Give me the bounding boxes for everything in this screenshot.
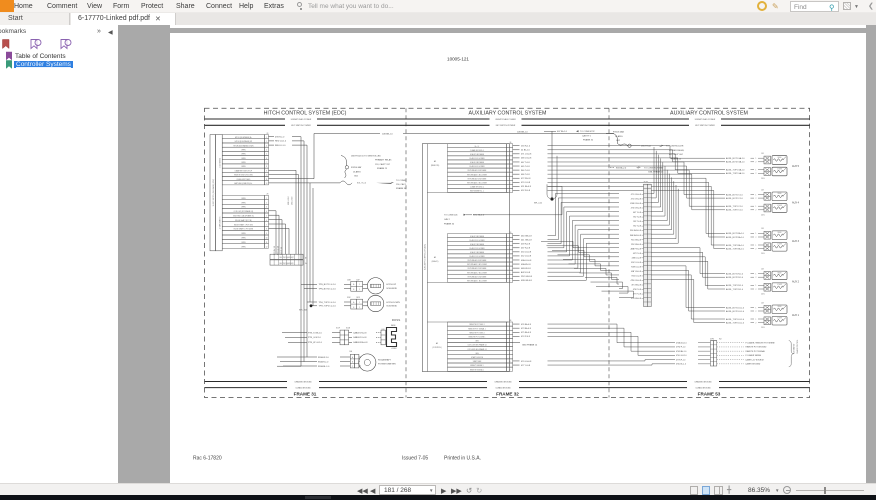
hitch down solenoid wires TPH_TOP1 / TPH_TOP2 (307, 297, 360, 308)
svg-text:F1 LASER SENSE: F1 LASER SENSE (746, 354, 762, 357)
svg-text:952 Y-0.8: 952 Y-0.8 (633, 217, 641, 219)
bus wire CLEAN GROUND (205, 386, 810, 389)
svg-text:992A R-1.0: 992A R-1.0 (318, 360, 329, 363)
svg-text:98B LU-1.0: 98B LU-1.0 (275, 145, 286, 147)
note 407 Bk-1.0 TO CONN 4732 CAVITY 5 FRAME 32 (544, 130, 595, 141)
svg-text:GND FRAME 14: GND FRAME 14 (522, 344, 538, 347)
svg-text:RAISE: RAISE (777, 271, 781, 274)
wires from A3 control across to laser receiver connector (548, 324, 676, 365)
AUX 1 lower wires and labels (726, 318, 764, 325)
svg-text:SOLENOID: SOLENOID (386, 288, 397, 290)
svg-text:FRAME 32: FRAME 32 (583, 139, 594, 142)
svg-text:AUXIL_BOT2 GA-1.0: AUXIL_BOT2 GA-1.0 (726, 161, 744, 164)
svg-text:143: 143 (761, 228, 764, 230)
fuse F3/206 4AT with circuit breaker curl (341, 156, 362, 179)
svg-text:12: 12 (509, 280, 511, 282)
svg-text:476L BL-1.0: 476L BL-1.0 (676, 364, 686, 366)
AUX 2 lower solenoid coil (772, 283, 787, 292)
svg-text:AUXIL_TOP2 Y-1.0: AUXIL_TOP2 Y-1.0 (726, 209, 743, 212)
svg-text:1: 1 (756, 319, 757, 321)
svg-text:4: 4 (266, 149, 267, 151)
connector J1/J2 hitch controller block bracket (210, 135, 222, 251)
svg-text:143: 143 (761, 268, 764, 270)
svg-text:143: 143 (761, 302, 764, 304)
svg-text:RETURN AUX 5 B2 RAISE: RETURN AUX 5 B2 RAISE (468, 169, 487, 172)
wires from group 2 rows to bundle (269, 211, 290, 254)
svg-text:R52 GN-0.8: R52 GN-0.8 (631, 244, 641, 246)
svg-text:OPEN: OPEN (241, 198, 245, 200)
svg-text:RED LU-1.0: RED LU-1.0 (275, 141, 287, 143)
frame separator dashed line between FRAME 32 and FRAME 53 (608, 108, 610, 397)
svg-text:470A GU-1.0: 470A GU-1.0 (676, 341, 687, 344)
svg-text:START GBK: START GBK (473, 360, 483, 363)
svg-text:950 Bk/G-0.8: 950 Bk/G-0.8 (630, 230, 641, 232)
hitch down solenoid connector 2-pin (351, 299, 368, 309)
connector J1 pin rows group 1 with pin numbers (222, 133, 268, 185)
svg-text:470L GU-1.0: 470L GU-1.0 (676, 355, 687, 357)
svg-text:2: 2 (359, 289, 360, 291)
svg-text:RAISE: RAISE (777, 231, 781, 234)
svg-text:R51 GN-0.8: R51 GN-0.8 (631, 239, 641, 241)
wire from pin 9 DIAMETER SWITCH UP (269, 169, 297, 171)
svg-text:12: 12 (509, 369, 511, 371)
svg-text:S12F: S12F (336, 328, 340, 330)
svg-text:F3/206 4AT: F3/206 4AT (351, 166, 362, 169)
svg-text:4T7 P-0.8: 4T7 P-0.8 (633, 294, 641, 296)
svg-text:10005-121: 10005-121 (447, 57, 469, 62)
svg-text:481 LU-1.0: 481 LU-1.0 (292, 197, 294, 205)
svg-text:450 LU-0.8: 450 LU-0.8 (521, 252, 532, 254)
svg-text:REMOTE POT SIGNAL 1: REMOTE POT SIGNAL 1 (468, 327, 486, 330)
svg-text:S1 AUX 1 B1 RAISE: S1 AUX 1 B1 RAISE (470, 251, 484, 254)
svg-text:AUXIL_TOP1 Y-1.0: AUXIL_TOP1 Y-1.0 (726, 205, 743, 208)
svg-text:AUXIL_BOT1 Bk-1.0: AUXIL_BOT1 Bk-1.0 (726, 232, 744, 235)
svg-text:D2M: D2M (347, 297, 351, 299)
svg-text:RIDGE SHAFT 1 POT GES: RIDGE SHAFT 1 POT GES (234, 223, 253, 226)
laser receiver wires and labels (676, 341, 775, 365)
svg-text:S1 AUX 3 B1 LOWER: S1 AUX 3 B1 LOWER (469, 239, 485, 242)
svg-text:1: 1 (756, 307, 757, 309)
svg-text:CABLE3 Bk-0.8: CABLE3 Bk-0.8 (353, 341, 368, 344)
svg-text:1B KEY SWITCH (IDLE/RAISE) (ED: 1B KEY SWITCH (IDLE/RAISE) (EDC) (212, 179, 215, 207)
svg-text:1: 1 (756, 206, 757, 208)
svg-text:467 T-0.8: 467 T-0.8 (521, 162, 530, 164)
svg-text:1: 1 (756, 245, 757, 247)
svg-text:A3: A3 (434, 160, 436, 163)
AUX 3 lower solenoid coil (772, 243, 787, 252)
svg-text:143: 143 (761, 189, 764, 191)
wires from A3 black rows with wire number labels (513, 235, 533, 282)
wire 98B LU-1.0 from pin 3 (269, 145, 308, 147)
svg-text:S1 AUX 1 B1 LOWER: S1 AUX 1 B1 LOWER (469, 255, 485, 258)
svg-text:DVM: DVM (710, 338, 714, 340)
note 19B P/G-B TO CONTROLLER POWER RELAY (641, 145, 685, 161)
wire from pin 11 CLEAN SWITCHED turning up to 10B bus wire (269, 134, 315, 179)
svg-text:465 T-0.8: 465 T-0.8 (521, 166, 530, 168)
svg-text:LASER GROUND: LASER GROUND (746, 363, 761, 366)
svg-text:G62: G62 (616, 140, 621, 142)
svg-text:1: 1 (509, 236, 510, 238)
svg-text:Issued 7-05: Issued 7-05 (402, 456, 428, 462)
svg-text:AUXIL_TOP1 GA-1.0: AUXIL_TOP1 GA-1.0 (726, 169, 744, 172)
svg-text:473 Bk-0.8: 473 Bk-0.8 (521, 328, 532, 330)
svg-text:LOWER: LOWER (777, 244, 782, 246)
svg-text:2: 2 (756, 248, 757, 250)
svg-text:FRAME 25: FRAME 25 (377, 167, 388, 170)
svg-text:AUX 3: AUX 3 (792, 240, 800, 243)
AUX 4 raise solenoid coil (772, 192, 787, 201)
AUX 4 lower solenoid coil (772, 204, 787, 213)
bulkhead connector strip 4P/3B frame 53 (644, 182, 652, 307)
svg-text:SOL. Bk-1.0: SOL. Bk-1.0 (473, 215, 485, 217)
splice squiggle and SOL. R-1.0 wire label (340, 180, 407, 190)
svg-text:AUX 1: AUX 1 (792, 314, 800, 317)
svg-text:(BLACK): (BLACK) (432, 260, 439, 263)
svg-text:243 L: 243 L (761, 178, 765, 180)
hitch up solenoid connector 2-pin (351, 281, 368, 291)
svg-text:AUXIL_TOP2 R-1.0: AUXIL_TOP2 R-1.0 (726, 288, 743, 291)
svg-text:BATT AND (REMOTE) B+: BATT AND (REMOTE) B+ (234, 182, 252, 185)
svg-text:R52 GN-0.8: R52 GN-0.8 (521, 276, 533, 278)
AUX 3 raise wires and labels (726, 232, 764, 239)
AUX 5 lower wires and labels (726, 169, 764, 176)
svg-text:2: 2 (756, 322, 757, 324)
splice SPL J34 junction dot (299, 304, 312, 311)
svg-text:RETURN AUX 4 B2 LOWER: RETURN AUX 4 B2 LOWER (467, 181, 488, 184)
svg-text:(REMOTE): (REMOTE) (431, 165, 440, 167)
AUX 3 lower connector 2-pin with X contacts (764, 243, 771, 251)
fuse F3/206 4AB 16 AWG G62 (606, 131, 640, 148)
svg-text:RETURN AUX 2 B2 RAISE: RETURN AUX 2 B2 RAISE (468, 267, 487, 270)
svg-text:AUTOMATED: AUTOMATED (793, 343, 796, 354)
svg-text:OPEN: OPEN (241, 149, 245, 151)
svg-text:474 P-0.8: 474 P-0.8 (521, 336, 531, 338)
svg-text:RETURN AUX 3 B2 LOWER: RETURN AUX 3 B2 LOWER (467, 263, 488, 266)
svg-text:AUXILIARY CONTROL SYSTEM: AUXILIARY CONTROL SYSTEM (670, 111, 748, 117)
svg-text:POTENTIOMETER: POTENTIOMETER (378, 363, 396, 365)
wires feeding potentiometer from bundle (277, 365, 301, 367)
svg-text:12: 12 (266, 183, 268, 185)
svg-text:AUXIL_TOP1 Bk-1.0: AUXIL_TOP1 Bk-1.0 (726, 244, 744, 247)
svg-text:CABLE2 U-0.8: CABLE2 U-0.8 (353, 336, 367, 339)
svg-text:HITCH (IDLE/RAISE) B+: HITCH (IDLE/RAISE) B+ (235, 136, 252, 139)
svg-text:S1 AUX 4 B1 LOWER: S1 AUX 4 B1 LOWER (469, 165, 485, 168)
svg-text:A: A (353, 283, 354, 286)
svg-text:437 R-0.8: 437 R-0.8 (521, 248, 531, 250)
svg-text:PTN_W LU-1.0: PTN_W LU-1.0 (308, 342, 323, 344)
svg-text:1: 1 (359, 302, 360, 304)
svg-text:RETURN AUX 5 B2 LOWER: RETURN AUX 5 B2 LOWER (467, 173, 488, 176)
svg-text:A3B P/G-0.8: A3B P/G-0.8 (631, 247, 641, 250)
svg-text:2: 2 (509, 150, 510, 152)
svg-text:CLEAN GROUND -2: CLEAN GROUND -2 (470, 185, 484, 188)
svg-text:S1 AUX 2 B1 LOWER: S1 AUX 2 B1 LOWER (469, 247, 485, 250)
svg-text:AUX 2: AUX 2 (792, 281, 800, 284)
ROSS valve body S12 (381, 324, 397, 350)
svg-text:143: 143 (761, 153, 764, 155)
svg-text:J1 (CHASSIS): J1 (CHASSIS) (219, 157, 222, 168)
hitch down solenoid coil (367, 295, 400, 311)
svg-text:TPH_TOP1 LU-1.0: TPH_TOP1 LU-1.0 (319, 302, 337, 304)
svg-text:243 L: 243 L (761, 294, 765, 296)
svg-text:SPL J34: SPL J34 (299, 310, 308, 312)
svg-text:43B LU-0.8: 43B LU-0.8 (632, 257, 641, 259)
connector J2 pin rows group 2 with pin numbers (222, 194, 268, 249)
svg-text:W2: W2 (719, 338, 722, 340)
svg-text:S1 AUX 3 B1 RAISE: S1 AUX 3 B1 RAISE (470, 235, 484, 238)
svg-text:952 T-0.8: 952 T-0.8 (633, 226, 641, 228)
svg-text:FRAME 32: FRAME 32 (496, 392, 519, 397)
bus wire KEY SWITCH POWER (205, 125, 810, 127)
svg-text:47H2 P-1.0: 47H2 P-1.0 (676, 347, 685, 349)
svg-text:OPEN: OPEN (241, 242, 245, 244)
svg-text:2: 2 (756, 173, 757, 175)
svg-text:94E Bk/G-0.8: 94E Bk/G-0.8 (630, 235, 641, 237)
svg-text:234B: 234B (347, 279, 351, 281)
svg-text:2: 2 (266, 141, 267, 143)
automated grade control brace (789, 340, 799, 367)
svg-text:243 L: 243 L (761, 253, 765, 255)
svg-text:COR LOW GES FRAME 14: COR LOW GES FRAME 14 (467, 344, 486, 347)
svg-text:43A LU-0.8: 43A LU-0.8 (521, 259, 532, 262)
svg-text:DIAMETER SWITCH UP: DIAMETER SWITCH UP (235, 169, 252, 172)
svg-text:RETURN AUX 4 B2 RAISE: RETURN AUX 4 B2 RAISE (468, 177, 487, 180)
svg-text:11: 11 (266, 179, 268, 181)
svg-text:A: A (353, 301, 354, 304)
ROSS cable wires PTN_S PTN_G PTN_W (282, 332, 340, 344)
svg-text:156, CAV 1: 156, CAV 1 (396, 183, 407, 186)
svg-text:F1 LASER / REMOTE POT SENSE: F1 LASER / REMOTE POT SENSE (746, 341, 776, 344)
svg-text:1: 1 (756, 285, 757, 287)
AUX 2 lower connector 2-pin with X contacts (764, 283, 771, 291)
svg-text:B: B (353, 289, 354, 291)
aux controller connector A3 black pin rows (448, 232, 513, 283)
svg-text:1: 1 (756, 194, 757, 196)
AUX 5 lower solenoid coil (772, 167, 787, 176)
svg-text:A: A (352, 356, 353, 359)
svg-text:KEY SWITCH POWER: KEY SWITCH POWER (496, 125, 516, 127)
svg-text:SPL-C11: SPL-C11 (534, 203, 543, 205)
svg-text:1: 1 (756, 158, 757, 160)
rodagraft potentiometer connector 3-pin (350, 354, 359, 368)
svg-text:RED Bk-1.0: RED Bk-1.0 (274, 246, 276, 255)
splice SPL-C11 junction with converging wires (534, 131, 557, 204)
svg-text:RETURN AUX 3 B2 RAISE: RETURN AUX 3 B2 RAISE (468, 259, 487, 262)
svg-text:PTN_G W-1.0: PTN_G W-1.0 (308, 337, 322, 339)
svg-text:UNSWITCHED POWER: UNSWITCHED POWER (495, 119, 516, 121)
svg-text:407 Bk-1.0: 407 Bk-1.0 (557, 131, 568, 133)
svg-text:10: 10 (509, 182, 511, 184)
svg-text:472 W-0.8: 472 W-0.8 (521, 178, 531, 180)
svg-text:AUXIL_BOT1 LU-1.0: AUXIL_BOT1 LU-1.0 (726, 306, 744, 309)
svg-text:S1 AUX 5 B1 RAISE: S1 AUX 5 B1 RAISE (470, 153, 484, 156)
wire from pin 12 BATT to splice (269, 182, 341, 184)
svg-text:441 GN-0.8: 441 GN-0.8 (521, 239, 532, 241)
svg-text:LOWER: LOWER (777, 284, 782, 286)
svg-text:466 T-0.8: 466 T-0.8 (521, 174, 530, 176)
wire from A3 remote pin 11 down to TO CONN 106 note (473, 186, 562, 214)
svg-text:F3/206 4AB: F3/206 4AB (613, 131, 624, 134)
svg-text:KSE LU-0.8: KSE LU-0.8 (631, 266, 641, 268)
svg-text:992A W-1.0: 992A W-1.0 (318, 356, 330, 359)
inline connector 18477B (lower half) (270, 260, 307, 265)
svg-text:CHASSIS GROUND: CHASSIS GROUND (294, 380, 312, 383)
laser receiver DVM connector strip (710, 338, 722, 366)
svg-text:S12: S12 (382, 329, 385, 331)
svg-text:CLEAN GROUND -1: CLEAN GROUND -1 (470, 149, 484, 152)
svg-text:HITCH (IDLE/RAISE) DOWN: HITCH (IDLE/RAISE) DOWN (233, 144, 253, 147)
AUX 3 raise connector 2-pin with X contacts (764, 231, 771, 239)
vertical wire name labels 481 LU-1.0 / 98B LU-1.0 (274, 196, 294, 255)
svg-text:PRIMARY RELAY,: PRIMARY RELAY, (375, 159, 392, 162)
svg-text:47B R-1.0: 47B R-1.0 (275, 137, 285, 139)
ROSS connector 3-pin (336, 328, 381, 345)
svg-text:2: 2 (756, 311, 757, 313)
wires from bulkhead strip down to AUX 2 and AUX 1 valve groups (651, 248, 725, 323)
svg-text:1E2F: 1E2F (356, 297, 360, 299)
AUX 1 raise connector 2-pin with X contacts (764, 305, 771, 313)
svg-text:REMOTE SIGNAL 1: REMOTE SIGNAL 1 (470, 368, 484, 371)
svg-text:S1 AUX 5 B1 LOWER: S1 AUX 5 B1 LOWER (469, 157, 485, 160)
svg-text:2: 2 (756, 198, 757, 200)
svg-text:S1 AUX 4 B1 RAISE: S1 AUX 4 B1 RAISE (470, 161, 484, 164)
svg-text:CAVITY 5: CAVITY 5 (582, 134, 592, 137)
AUX 5 raise solenoid coil (772, 156, 787, 165)
svg-text:477N P-1.0: 477N P-1.0 (676, 359, 685, 361)
svg-text:RAISE: RAISE (777, 305, 781, 308)
svg-text:6: 6 (266, 158, 267, 160)
AUX 4 raise wires and labels (726, 193, 764, 200)
svg-text:471 LG-0.8: 471 LG-0.8 (521, 154, 532, 156)
svg-text:G4: G4 (305, 263, 307, 265)
aux controller connector A3 remote pin rows (448, 142, 513, 193)
svg-text:RETURN AUX 1 B2 RAISE: RETURN AUX 1 B2 RAISE (468, 275, 487, 278)
svg-text:FRAME 34: FRAME 34 (444, 223, 455, 226)
wire 10B BN-1.0 horizontal run (314, 132, 614, 136)
svg-text:B4, CAVITY A7: B4, CAVITY A7 (669, 153, 684, 156)
svg-text:1: 1 (359, 284, 360, 286)
AUX 1 lower connector 2-pin with X contacts (764, 317, 771, 325)
svg-text:3: 3 (266, 145, 267, 147)
staircase wires entering bulkhead strip lower rows (541, 241, 634, 297)
svg-text:AUXIL_BOT1 Y-1.0: AUXIL_BOT1 Y-1.0 (726, 193, 743, 196)
A3 block internal divider lines (427, 192, 508, 322)
svg-text:CLEAN GROUND: CLEAN GROUND (295, 386, 311, 389)
svg-text:11: 11 (266, 242, 268, 244)
svg-text:ROSS: ROSS (392, 318, 401, 322)
svg-text:KSC LU-0.8: KSC LU-0.8 (631, 262, 641, 264)
svg-text:233 R-1.0: 233 R-1.0 (521, 146, 531, 148)
bus wire CHASSIS GROUND (205, 380, 810, 383)
svg-text:932 T-0.8: 932 T-0.8 (633, 221, 641, 223)
svg-text:4T2 O/G-0.8: 4T2 O/G-0.8 (631, 199, 641, 201)
AUX 2 raise solenoid coil (772, 271, 787, 280)
svg-text:LASER +5V SOURCE: LASER +5V SOURCE (746, 358, 765, 361)
solenoid valve group AUX 2 (761, 268, 800, 295)
svg-text:HITCH UP: HITCH UP (386, 284, 396, 286)
svg-text:AUXIL_TOP1 R-1.0: AUXIL_TOP1 R-1.0 (726, 284, 743, 287)
svg-text:AUXIL_BOT2 LU-1.0: AUXIL_BOT2 LU-1.0 (726, 310, 744, 313)
svg-text:LOWER: LOWER (777, 205, 782, 207)
svg-text:CLEAN GROUND: CLEAN GROUND (695, 386, 711, 389)
svg-text:9: 9 (509, 178, 510, 180)
AUX 5 raise connector 2-pin with X contacts (764, 156, 771, 164)
svg-text:460 GN-0.8: 460 GN-0.8 (521, 235, 532, 237)
svg-text:AUXIL_TOP1 LU-1.0: AUXIL_TOP1 LU-1.0 (726, 318, 744, 321)
svg-text:475 Bk-0.8: 475 Bk-0.8 (521, 332, 532, 334)
svg-text:INSTRUMENT B+ -1: INSTRUMENT B+ -1 (470, 191, 484, 193)
wires from A3 control rows (513, 324, 538, 367)
svg-text:CAV 2: CAV 2 (444, 218, 451, 221)
svg-text:R52 LU-0.8: R52 LU-0.8 (632, 276, 641, 278)
svg-text:44 Bk-1.0: 44 Bk-1.0 (521, 150, 531, 152)
svg-text:OPEN: OPEN (241, 207, 245, 209)
schematic outer dashed border (205, 108, 810, 397)
svg-text:2: 2 (756, 237, 757, 239)
svg-text:AUXIL_BOT2 R-1.0: AUXIL_BOT2 R-1.0 (726, 276, 743, 279)
svg-text:KEY SWITCH POWER: KEY SWITCH POWER (695, 125, 715, 127)
svg-text:CABLE1 N-0.8: CABLE1 N-0.8 (353, 331, 367, 334)
note 91B Bk-2.0 TO CONN NORMAL G3B FRAME 25 (610, 166, 664, 173)
svg-text:477 O-0.8: 477 O-0.8 (521, 365, 531, 367)
svg-text:470 O-0.8: 470 O-0.8 (521, 182, 531, 184)
svg-text:TPN_BOT1 LU-1.0: TPN_BOT1 LU-1.0 (319, 284, 337, 286)
svg-text:153, CAVITY B7: 153, CAVITY B7 (375, 163, 391, 166)
inline connector 18477B (upper half) (270, 254, 307, 259)
svg-text:AUXIL_BOT2 Bk-1.0: AUXIL_BOT2 Bk-1.0 (726, 236, 744, 239)
svg-text:4TN O/G-0.8: 4TN O/G-0.8 (630, 280, 641, 282)
svg-text:RIDGE SHAFT 1 PIT KDRM: RIDGE SHAFT 1 PIT KDRM (234, 228, 254, 231)
AUX 2 raise connector 2-pin with X contacts (764, 272, 771, 280)
svg-text:1: 1 (756, 233, 757, 235)
AUX 2 lower wires and labels (726, 284, 764, 291)
svg-text:REMOTE POT SIGNAL: REMOTE POT SIGNAL (746, 350, 765, 353)
hitch up solenoid coil (367, 278, 397, 294)
svg-text:A32 K-0.8: A32 K-0.8 (521, 271, 531, 274)
svg-text:15A: 15A (349, 350, 353, 353)
hitch up solenoid wires TPN_BOT1 / TPN_BOT2 (301, 279, 360, 290)
svg-text:TPH_TOP2 LU-1.0: TPH_TOP2 LU-1.0 (319, 306, 337, 308)
svg-text:243 L: 243 L (761, 214, 765, 216)
svg-text:2: 2 (756, 210, 757, 212)
svg-text:LOWER: LOWER (777, 318, 782, 320)
svg-text:RAISE: RAISE (391, 324, 396, 327)
svg-text:B: B (352, 362, 353, 364)
svg-text:43A W-0.8: 43A W-0.8 (521, 263, 531, 266)
svg-text:B: B (353, 307, 354, 309)
AUX 2 raise wires and labels (726, 272, 764, 279)
auxiliary controller outer block (422, 144, 509, 372)
svg-text:5: 5 (266, 154, 267, 156)
svg-text:4P 3B: 4P 3B (644, 182, 648, 184)
svg-text:GND RED LOAD (FRAME 74): GND RED LOAD (FRAME 74) (233, 215, 254, 218)
AUX 5 lower connector 2-pin with X contacts (764, 168, 771, 176)
svg-text:RODAGRAFT: RODAGRAFT (378, 359, 392, 362)
svg-text:(CONTROL): (CONTROL) (432, 347, 442, 349)
svg-text:4T1 O/G-0.8: 4T1 O/G-0.8 (631, 194, 641, 196)
svg-text:4T6 O/G-0.8: 4T6 O/G-0.8 (631, 208, 641, 210)
svg-text:470N Bk-1.0: 470N Bk-1.0 (676, 351, 686, 353)
svg-text:4TB GN-0.8: 4TB GN-0.8 (631, 298, 641, 300)
svg-text:470 LG-0.8: 470 LG-0.8 (521, 361, 532, 363)
svg-text:Printed in U.S.A.: Printed in U.S.A. (444, 456, 481, 462)
svg-text:TO CONN 106: TO CONN 106 (444, 215, 458, 217)
AUX 3 raise solenoid coil (772, 231, 787, 240)
svg-text:AUXIL_BOT1 R-1.0: AUXIL_BOT1 R-1.0 (726, 272, 743, 275)
svg-text:A3: A3 (436, 342, 438, 345)
svg-text:19B P/G-B: 19B P/G-B (641, 146, 651, 148)
svg-text:AUX 5: AUX 5 (792, 165, 800, 168)
